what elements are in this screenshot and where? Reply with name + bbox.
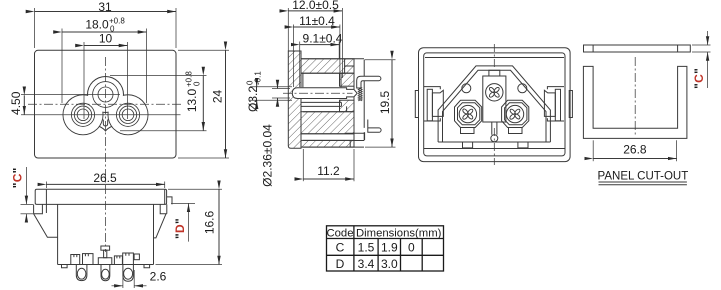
svg-text:26.5: 26.5 [93, 171, 117, 185]
svg-text:Dimensions(mm): Dimensions(mm) [356, 227, 442, 239]
svg-text:10: 10 [99, 32, 113, 46]
svg-text:19.5: 19.5 [378, 90, 392, 114]
svg-text:26.8: 26.8 [623, 143, 647, 157]
svg-text:-0.1: -0.1 [254, 71, 263, 85]
svg-text:PANEL CUT-OUT: PANEL CUT-OUT [598, 171, 689, 183]
svg-text:11±0.4: 11±0.4 [299, 14, 335, 28]
svg-text:18.0: 18.0 [85, 18, 109, 32]
svg-text:Ø2.36±0.04: Ø2.36±0.04 [261, 124, 275, 187]
svg-text:"C": "C" [10, 167, 24, 188]
svg-text:3.0: 3.0 [381, 257, 398, 271]
svg-text:9.1±0.4: 9.1±0.4 [303, 31, 343, 45]
svg-text:0: 0 [193, 81, 202, 86]
svg-text:1.9: 1.9 [381, 241, 398, 255]
svg-text:1.5: 1.5 [358, 241, 375, 255]
svg-text:24: 24 [211, 90, 225, 104]
svg-text:2.6: 2.6 [150, 270, 167, 284]
svg-text:3.4: 3.4 [358, 257, 375, 271]
svg-text:12.0±0.5: 12.0±0.5 [292, 0, 339, 12]
svg-text:4.50: 4.50 [9, 91, 23, 115]
svg-text:"D": "D" [173, 218, 187, 239]
svg-text:13.0: 13.0 [185, 88, 199, 112]
svg-text:11.2: 11.2 [317, 164, 340, 178]
svg-text:16.6: 16.6 [203, 210, 217, 234]
svg-text:D: D [336, 257, 345, 271]
svg-text:Code: Code [326, 227, 353, 239]
svg-text:Ø3.2: Ø3.2 [246, 86, 260, 112]
svg-text:31: 31 [98, 0, 112, 14]
svg-text:0: 0 [408, 241, 415, 255]
svg-text:"C": "C" [692, 68, 706, 89]
svg-text:C: C [336, 241, 345, 255]
